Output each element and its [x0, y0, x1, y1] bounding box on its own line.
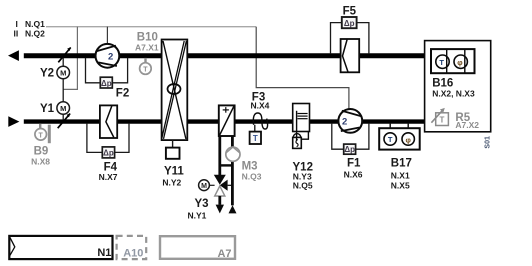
controller N1	[9, 236, 112, 259]
arrow flow in	[229, 205, 237, 213]
svg-text:Y3: Y3	[195, 198, 209, 210]
svg-text:Δp: Δp	[101, 79, 112, 88]
wire bus drop to fan F1	[256, 27, 349, 110]
svg-text:N1: N1	[97, 247, 111, 259]
damper blade top duct	[58, 48, 70, 63]
svg-text:N.Q2: N.Q2	[25, 28, 45, 38]
svg-text:N.X5: N.X5	[391, 181, 410, 191]
svg-text:II: II	[14, 28, 19, 38]
module A10	[117, 236, 147, 259]
svg-text:N.X2, N.X3: N.X2, N.X3	[432, 89, 475, 99]
svg-text:N.Y2: N.Y2	[162, 178, 181, 188]
arrow flow out	[216, 205, 224, 214]
svg-text:A10: A10	[123, 248, 143, 260]
damper blade bottom duct	[58, 114, 70, 129]
svg-text:M: M	[201, 183, 207, 190]
supply air duct (bottom)	[24, 119, 425, 123]
filter F2 dp bracket	[86, 58, 101, 83]
svg-text:Δp: Δp	[344, 19, 355, 28]
svg-text:T: T	[143, 67, 148, 74]
extract air duct (top)	[24, 53, 425, 58]
svg-text:Δp: Δp	[344, 145, 355, 154]
arrow extract air left	[8, 50, 19, 61]
pipe heating return (right)	[231, 136, 234, 205]
svg-text:Y11: Y11	[164, 166, 184, 178]
sensor B17 duct mounted	[389, 124, 391, 134]
module A7	[160, 236, 235, 259]
pump M3	[226, 147, 240, 161]
actuator Y1	[57, 102, 70, 115]
sensor F3 duct capillary	[253, 113, 267, 129]
svg-text:φ: φ	[406, 135, 412, 144]
filter F1 dp bracket	[332, 124, 344, 150]
pipe below valve	[218, 196, 221, 205]
svg-text:M: M	[60, 68, 66, 77]
svg-text:2: 2	[342, 117, 347, 128]
svg-text:F2: F2	[116, 87, 129, 99]
humidifier Y12	[293, 104, 310, 132]
filter F5 dp bracket	[331, 23, 342, 54]
svg-text:T: T	[39, 132, 44, 139]
svg-text:N.X4: N.X4	[251, 100, 270, 110]
setpoint adjuster R5	[436, 113, 449, 126]
svg-text:T: T	[253, 134, 258, 143]
svg-text:N.X6: N.X6	[344, 170, 363, 180]
svg-text:A7.X2: A7.X2	[455, 120, 479, 130]
svg-text:N.X8: N.X8	[31, 156, 50, 166]
actuator Y11 wheel motor	[172, 140, 174, 148]
room unit B16	[425, 41, 491, 132]
heating coil	[219, 105, 235, 136]
svg-text:F1: F1	[347, 158, 361, 170]
actuator M for Y3	[199, 180, 210, 191]
pipe heating supply (left)	[218, 136, 221, 175]
heat recovery wheel	[162, 40, 188, 141]
svg-text:N.Q5: N.Q5	[293, 181, 313, 191]
svg-text:B17: B17	[391, 157, 412, 169]
svg-text:Y1: Y1	[40, 103, 55, 115]
svg-text:Y2: Y2	[40, 68, 54, 80]
svg-text:N.X1: N.X1	[391, 171, 410, 181]
filter F4 dp bracket	[87, 124, 102, 153]
svg-text:A7.X1: A7.X1	[135, 42, 159, 52]
svg-text:T: T	[439, 58, 444, 67]
wire bus drop to fan 2 (top)	[106, 27, 108, 45]
svg-text:M3: M3	[242, 160, 258, 172]
pipe bypass	[220, 164, 233, 166]
filter F5	[341, 39, 360, 72]
actuator Y2	[62, 58, 64, 66]
svg-text:Δp: Δp	[103, 149, 114, 158]
svg-text:S01: S01	[484, 136, 491, 149]
sensor B9 outside air temp	[39, 124, 41, 129]
svg-text:N.X7: N.X7	[99, 172, 118, 182]
wire Y2-Y1 link	[62, 79, 64, 102]
svg-text:T: T	[439, 116, 444, 125]
fan 2 (extract)	[96, 44, 120, 68]
node N.Q1/N.Q2 gray control bus	[46, 26, 256, 28]
svg-text:T: T	[388, 135, 393, 144]
svg-text:N.Q3: N.Q3	[242, 172, 262, 182]
svg-text:N.Y1: N.Y1	[188, 211, 207, 221]
svg-text:φ: φ	[457, 58, 463, 67]
wire bus drop to damper actuators	[63, 27, 77, 90]
valve Y3 three-way	[214, 175, 226, 185]
filter F4	[100, 105, 117, 138]
svg-text:A7: A7	[217, 248, 231, 260]
svg-text:M: M	[60, 104, 66, 113]
arrow supply air right	[8, 116, 19, 127]
svg-text:F5: F5	[343, 6, 357, 18]
svg-text:2: 2	[108, 52, 113, 63]
sensor B10	[144, 58, 146, 63]
fan F1 (supply)	[338, 109, 362, 133]
